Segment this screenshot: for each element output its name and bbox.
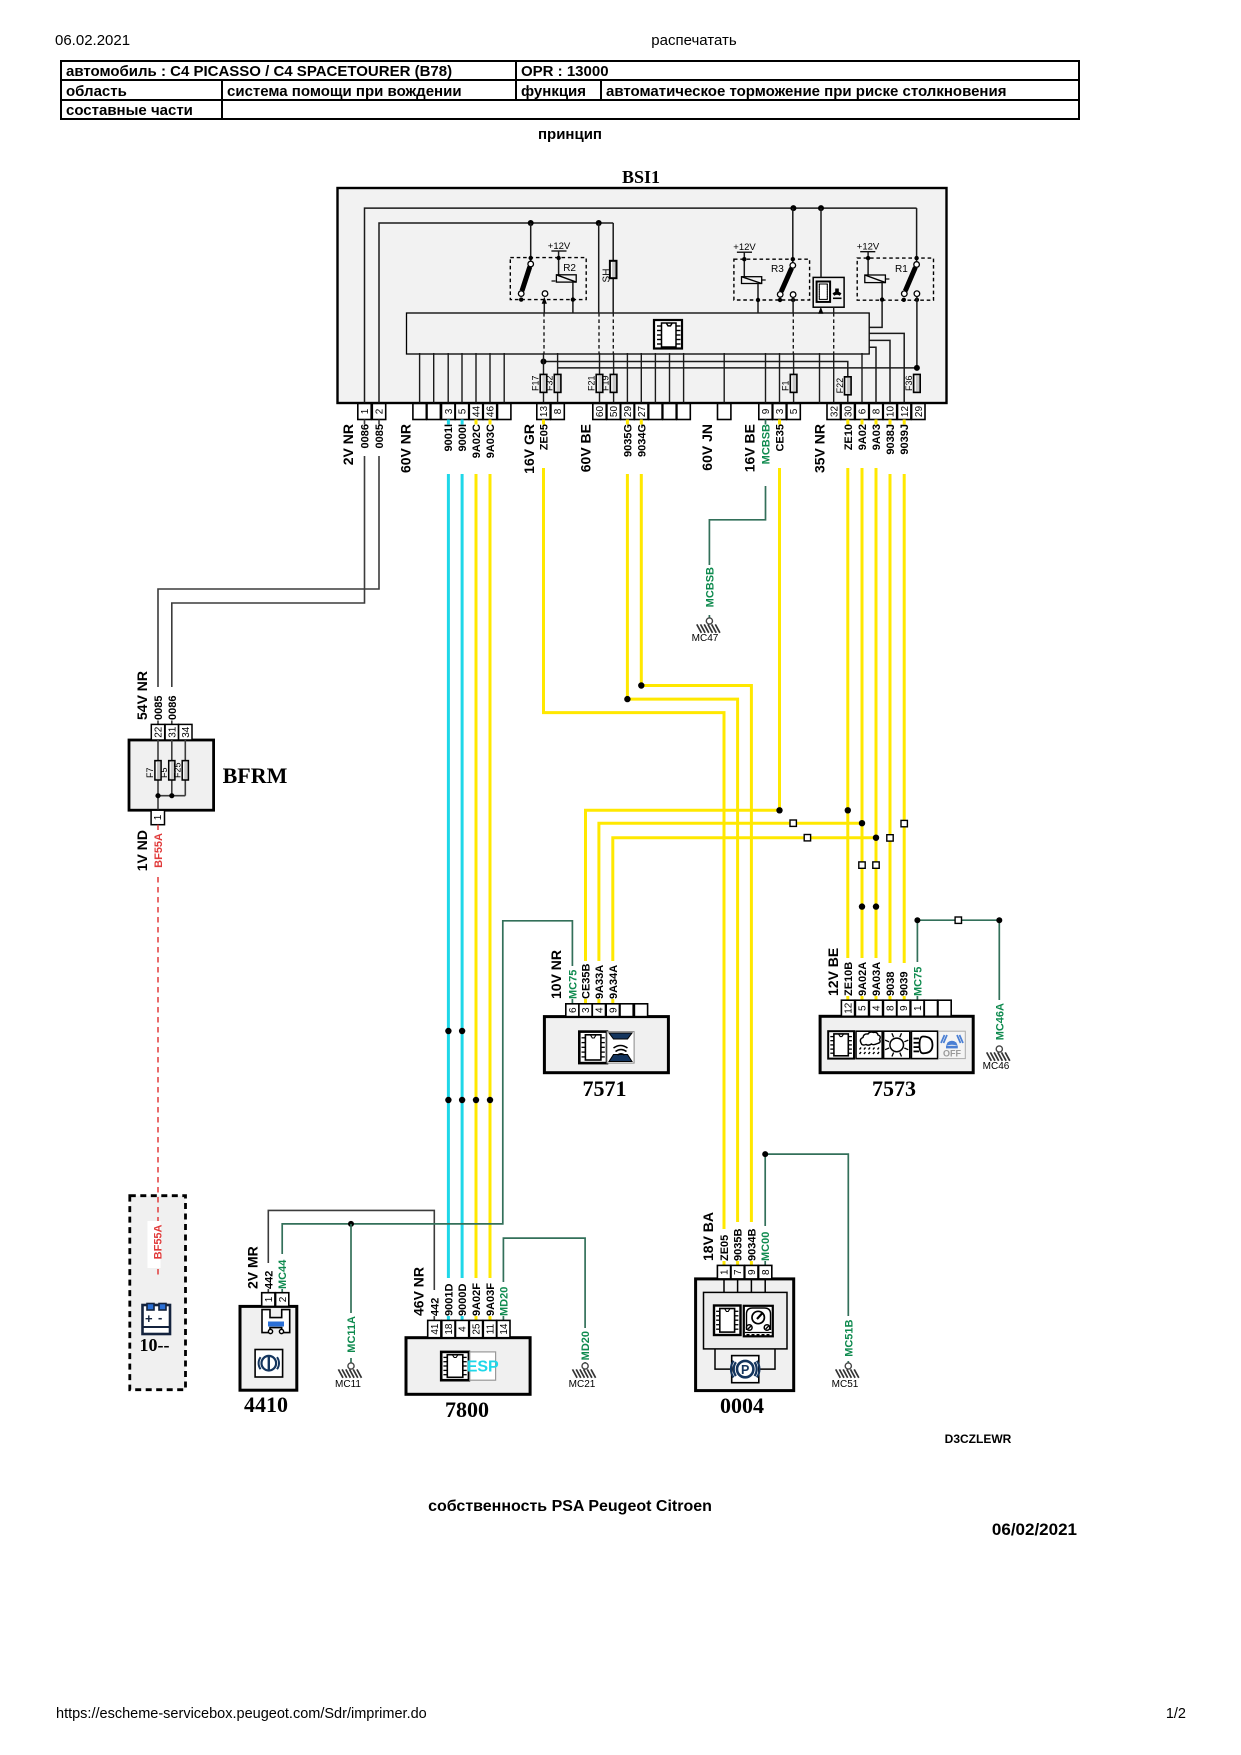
wire MC75/MC46A from 7573 pin 1 to ground MC46 (916, 996, 918, 1000)
svg-text:32: 32 (829, 406, 840, 418)
svg-text:06.02.2021: 06.02.2021 (55, 32, 130, 49)
7800 pin 41 (428, 1320, 441, 1337)
7571 pin 4 (592, 1004, 605, 1017)
0004 inner box (704, 1279, 788, 1369)
7800 ESP icon (467, 1352, 499, 1380)
module 0004 (parking brake / instrument unit) (696, 1265, 794, 1418)
svg-text:44: 44 (472, 406, 483, 418)
0004 pin 8 (759, 1265, 772, 1279)
svg-text:система помощи при вождении: система помощи при вождении (227, 83, 462, 100)
svg-text:1: 1 (264, 1296, 275, 1302)
svg-text:0085: 0085 (153, 696, 165, 720)
svg-text:F19: F19 (601, 375, 611, 391)
fuse F1 (781, 374, 797, 392)
BSI pin 27 (635, 404, 648, 420)
svg-text:8: 8 (886, 1005, 897, 1011)
7573 pin 12 (841, 1000, 854, 1016)
svg-text:составные части: составные части (66, 102, 193, 119)
svg-text:9: 9 (747, 1269, 758, 1275)
BSI pin 8 (869, 404, 882, 420)
svg-text:9A03A: 9A03A (871, 962, 883, 996)
svg-text:F17: F17 (531, 375, 541, 391)
svg-text:8: 8 (761, 1269, 772, 1275)
svg-text:P: P (741, 1363, 749, 1377)
fuse join wire inside BFRM (155, 793, 185, 810)
7571 pin 6 (566, 1004, 579, 1017)
svg-text:29: 29 (914, 406, 925, 418)
svg-text:BFRM: BFRM (223, 763, 288, 788)
BSI pin 10 (883, 404, 896, 420)
wire CE35B link to 7571 pin 3 (586, 810, 780, 961)
7800 pin 25 (469, 1320, 482, 1337)
chip module U2 with buzzer icon (813, 208, 844, 403)
7573 pin 1 (911, 1000, 924, 1016)
svg-text:автоматическое торможение при: автоматическое торможение при риске стол… (606, 83, 1006, 100)
junction dots on cyan wires (445, 1028, 493, 1103)
wire MD20 from 7800 pin 14 to ground MC21 (502, 1316, 504, 1320)
0004 pin 7 (731, 1265, 744, 1279)
svg-text:11: 11 (486, 1323, 497, 1334)
BSI pin (nc) (663, 404, 676, 420)
7573 pin (nc) (924, 1000, 937, 1016)
svg-text:9035B: 9035B (733, 1229, 745, 1261)
svg-text:9001D: 9001D (443, 1284, 455, 1316)
svg-text:12V BE: 12V BE (825, 948, 841, 996)
svg-text:MC51B: MC51B (843, 1319, 855, 1356)
relay R1 (857, 208, 934, 368)
below-bus horizontal link L2 to fuse F36 (558, 365, 920, 371)
svg-text:F25: F25 (173, 762, 183, 778)
svg-text:0004: 0004 (720, 1393, 764, 1418)
svg-text:+12V: +12V (733, 242, 756, 253)
svg-text:MC11: MC11 (335, 1379, 361, 1390)
7573 pin 9 (897, 1000, 910, 1016)
ground MC47 (706, 618, 712, 624)
svg-text:9034G: 9034G (636, 424, 648, 457)
svg-text:2V MR: 2V MR (245, 1246, 261, 1289)
fuse SH (602, 223, 617, 313)
svg-text:5: 5 (458, 408, 469, 414)
svg-text:0086: 0086 (167, 696, 179, 720)
fuse F32 (545, 374, 561, 392)
fuse F22 (835, 377, 851, 395)
svg-text:41: 41 (430, 1323, 441, 1335)
svg-text:9A33A: 9A33A (594, 965, 606, 999)
svg-text:F5: F5 (159, 767, 169, 778)
svg-text:MC46: MC46 (983, 1061, 1010, 1072)
svg-text:9: 9 (899, 1005, 910, 1011)
fuse F36 (904, 374, 920, 392)
svg-text:14: 14 (499, 1323, 510, 1335)
svg-text:MC47: MC47 (692, 633, 719, 644)
fuse F21 (587, 374, 603, 392)
7800 pin 14 (497, 1320, 510, 1337)
svg-text:3: 3 (581, 1007, 592, 1013)
wire 9039J/9039 (903, 420, 906, 425)
wire 9000I/9000D cyan (461, 420, 464, 425)
svg-text:6: 6 (568, 1007, 579, 1013)
svg-text:9A03F: 9A03F (485, 1283, 497, 1316)
svg-text:8: 8 (872, 408, 883, 414)
header table (61, 61, 1079, 119)
svg-text:35V NR: 35V NR (812, 424, 828, 473)
relay R3 (733, 208, 809, 313)
svg-text:1: 1 (360, 408, 371, 414)
svg-text:2: 2 (278, 1296, 289, 1302)
svg-text:область: область (66, 83, 127, 100)
DIAGRAM placeholder (129, 167, 1010, 1422)
svg-text:F36: F36 (904, 375, 914, 391)
BSI pin 46 (483, 404, 496, 420)
svg-text:9001I: 9001I (443, 424, 455, 452)
svg-text:31: 31 (167, 726, 178, 738)
internal bus bar of BSI1 (407, 313, 870, 354)
7800 chip icon (441, 1352, 469, 1380)
7573 chip icon (828, 1031, 854, 1058)
svg-text:MC44: MC44 (277, 1259, 289, 1289)
module 7571 (distance alert unit) (544, 1004, 668, 1101)
BSI pin (nc) (677, 404, 690, 420)
BSI pin 30 (841, 404, 854, 420)
svg-text:9035G: 9035G (622, 424, 634, 457)
svg-text:06/02/2021: 06/02/2021 (992, 1520, 1077, 1539)
BSI pin 6 (855, 404, 868, 420)
7573 pin 5 (855, 1000, 868, 1016)
svg-text:OFF: OFF (943, 1049, 961, 1059)
wire BF55A red dashed to battery (157, 825, 159, 830)
wire 9A02C/9A02F yellow (475, 420, 478, 425)
svg-text:R2: R2 (563, 263, 576, 274)
MORE placeholder (129, 420, 1010, 1423)
svg-text:F22: F22 (835, 378, 845, 394)
7573 pin (nc) (938, 1000, 951, 1016)
wire 9001I/9001D cyan (447, 420, 450, 425)
below-bus horizontal link L1 to fuse F22 (541, 359, 848, 404)
svg-text:3: 3 (444, 408, 455, 414)
BSI pin (nc) (649, 404, 662, 420)
svg-text:MC51: MC51 (832, 1379, 859, 1390)
BSI pin 8 (551, 404, 564, 420)
BSI pin (nc) (413, 404, 426, 420)
junction dots on wire B (528, 220, 602, 226)
svg-text:-: - (158, 1310, 162, 1325)
svg-text:F21: F21 (587, 375, 597, 391)
svg-text:27: 27 (637, 406, 648, 418)
svg-text:BF55A: BF55A (153, 833, 165, 868)
svg-text:9A34A: 9A34A (608, 965, 620, 999)
svg-text:MC75: MC75 (567, 970, 579, 999)
svg-text:7: 7 (733, 1269, 744, 1275)
svg-text:1: 1 (720, 1269, 731, 1275)
ground MC46 (996, 1046, 1002, 1052)
svg-text:собственность PSA Peugeot Citr: собственность PSA Peugeot Citroen (428, 1498, 712, 1515)
svg-text:18: 18 (444, 1323, 455, 1335)
step connections from bus right edge to pins 8 10 12 (869, 333, 904, 403)
svg-text:8: 8 (553, 408, 564, 414)
7573 sun sensor icon (884, 1031, 910, 1058)
BSI pin 50 (607, 404, 620, 420)
COMPONENTS placeholder (240, 948, 973, 1422)
svg-text:https://escheme-servicebox.peu: https://escheme-servicebox.peugeot.com/S… (56, 1706, 427, 1722)
svg-text:60V JN: 60V JN (699, 424, 715, 471)
svg-text:CE35: CE35 (775, 424, 787, 452)
svg-text:442: 442 (429, 1298, 441, 1316)
ground MC21 (582, 1363, 588, 1369)
svg-text:16V GR: 16V GR (521, 424, 537, 474)
svg-text:4: 4 (872, 1005, 883, 1011)
svg-text:MC75: MC75 (912, 967, 924, 996)
svg-text:60V BE: 60V BE (578, 424, 594, 472)
svg-text:9000D: 9000D (457, 1284, 469, 1316)
battery unit 10 (dashed box) (130, 1196, 186, 1390)
7573 pin 4 (869, 1000, 882, 1016)
wire MC11A drop to ground MC11 (350, 1224, 352, 1313)
7800 pin 4 (456, 1320, 469, 1337)
bus-to-pin stub wires (420, 353, 862, 404)
BSI pin 2 (372, 404, 385, 420)
wire 0086 from BSI pin 1 to BFRM pin 31 (364, 420, 366, 425)
wire 9034G/9034B to 0004 pin 9 (640, 420, 643, 425)
svg-text:18V BA: 18V BA (700, 1212, 716, 1261)
wire 9A02/9A02A (861, 420, 864, 425)
7571 chip icon (579, 1032, 607, 1064)
svg-text:0085: 0085 (374, 424, 386, 448)
fuse F25 (173, 740, 189, 796)
4410 pedal switch icon (262, 1310, 290, 1334)
svg-text:D3CZLEWR: D3CZLEWR (945, 1432, 1012, 1446)
BSI connector pin boxes (358, 404, 925, 420)
svg-text:34: 34 (181, 726, 192, 738)
svg-text:54V NR: 54V NR (134, 671, 150, 720)
0004 pin 9 (745, 1265, 758, 1279)
svg-text:9039J: 9039J (899, 424, 911, 455)
svg-text:ZE05: ZE05 (719, 1235, 731, 1261)
svg-text:1V ND: 1V ND (134, 830, 150, 871)
svg-text:принцип: принцип (538, 126, 602, 143)
svg-text:6: 6 (858, 408, 869, 414)
BSI pin 5 (787, 404, 800, 420)
wire 9035G/9035B to 0004 pin 7 (626, 420, 629, 425)
svg-text:ZE10: ZE10 (843, 424, 855, 450)
0004 parking brake icon (731, 1356, 760, 1383)
svg-text:4410: 4410 (244, 1392, 288, 1417)
svg-text:1/2: 1/2 (1166, 1706, 1186, 1722)
wire B: second feed rail from pin 2 (379, 223, 613, 404)
svg-text:9A02: 9A02 (857, 424, 869, 450)
svg-text:0086: 0086 (360, 424, 372, 448)
BSI pin 1 (358, 404, 371, 420)
BSI pin 12 (898, 404, 911, 420)
svg-text:5: 5 (858, 1005, 869, 1011)
svg-text:7571: 7571 (583, 1076, 627, 1101)
svg-text:9: 9 (761, 408, 772, 414)
7571 pin (nc) (634, 1004, 647, 1017)
wire CE35 from BSI pin 3 (778, 420, 781, 425)
dashed feed-through wires across bus bar (544, 313, 793, 354)
battery symbol (140, 1304, 171, 1356)
junction dots on 7573 feed wires (845, 807, 880, 910)
svg-text:ESP: ESP (467, 1359, 499, 1376)
svg-text:BSI1: BSI1 (622, 167, 660, 187)
wire 9A03C/9A03F yellow (489, 420, 492, 425)
svg-text:12: 12 (900, 406, 911, 418)
wire MCBSB to ground MC47 (765, 420, 767, 425)
svg-text:OPR : 13000: OPR : 13000 (521, 63, 609, 80)
wire from wire B down to bus (598, 223, 600, 313)
BSI pin (nc) (498, 404, 511, 420)
BSI pin 32 (827, 404, 840, 420)
splice squares (790, 820, 907, 868)
relay R2 (510, 223, 586, 313)
wire ZE05 to 0004 pin 1 (542, 420, 545, 425)
7800 pin 18 (442, 1320, 455, 1337)
svg-text:9038J: 9038J (885, 424, 897, 455)
svg-text:9A02F: 9A02F (471, 1283, 483, 1316)
svg-text:25: 25 (472, 1323, 483, 1335)
BSI connector labels (340, 424, 911, 474)
4410 pin 2 (276, 1293, 289, 1307)
svg-text:10V NR: 10V NR (548, 950, 564, 999)
svg-text:+12V: +12V (857, 242, 880, 253)
BSI pin (nc) (427, 404, 440, 420)
svg-text:MD20: MD20 (498, 1287, 510, 1316)
BSI pin 29 (621, 404, 634, 420)
svg-text:BF55A: BF55A (153, 1224, 165, 1259)
4410 pin 1 (262, 1293, 275, 1307)
fuse F5 (159, 740, 175, 796)
svg-text:MCBSB: MCBSB (761, 424, 773, 464)
svg-text:46V NR: 46V NR (411, 1267, 427, 1316)
svg-text:46: 46 (486, 406, 497, 418)
BSI pin 44 (469, 404, 482, 420)
svg-text:MC11A: MC11A (346, 1316, 358, 1353)
svg-text:4: 4 (458, 1326, 469, 1332)
7573 rain sensor icon (856, 1031, 882, 1058)
svg-text:CE35B: CE35B (581, 963, 593, 999)
ground MC11 (348, 1363, 354, 1369)
7800 pin 11 (483, 1320, 496, 1337)
svg-text:9A02A: 9A02A (857, 962, 869, 996)
BSI1 control unit box (338, 167, 947, 403)
svg-text:SH: SH (602, 269, 613, 283)
svg-text:1: 1 (913, 1005, 924, 1011)
svg-text:16V BE: 16V BE (742, 424, 758, 472)
svg-text:30: 30 (843, 406, 854, 418)
wire MC00/MC51B from 0004 pin 8 to ground MC51 (764, 1261, 766, 1265)
svg-text:9039: 9039 (899, 972, 911, 996)
svg-text:5: 5 (789, 408, 800, 414)
0004 gauge icon (744, 1306, 773, 1337)
wire 9A33A link from 7571 pin 4 to 9A02 (597, 999, 600, 1004)
wire A: top feed rail from pin 1 (365, 208, 917, 403)
BFRM pin 1 (151, 810, 164, 825)
wire MC44/MC75 green net 4410 pin 2 to 7571 pin 6 (281, 1289, 283, 1293)
wire ZE10/ZE10B (846, 420, 849, 425)
svg-text:29: 29 (623, 406, 634, 418)
svg-text:9A03C: 9A03C (485, 424, 497, 458)
7571 pin 9 (606, 1004, 619, 1017)
BSI pin 9 (759, 404, 772, 420)
svg-text:MC00: MC00 (760, 1232, 772, 1261)
fuse F17 (531, 374, 547, 392)
svg-text:10: 10 (886, 406, 897, 418)
BSI pin 13 (537, 404, 550, 420)
svg-text:60: 60 (595, 406, 606, 418)
BSI pin 3 (773, 404, 786, 420)
svg-text:9A03: 9A03 (871, 424, 883, 450)
footer (56, 1432, 1186, 1722)
svg-text:9034B: 9034B (746, 1229, 758, 1261)
svg-text:10--: 10-- (140, 1335, 170, 1355)
BSI pin (nc) (718, 404, 731, 420)
svg-text:7573: 7573 (872, 1076, 916, 1101)
ground MC51 (845, 1363, 851, 1369)
wire 0085 from BSI pin 2 to BFRM pin 22 (378, 420, 380, 425)
module 7800 (ESP unit) (406, 1320, 530, 1422)
7573 lane assist OFF icon (939, 1031, 966, 1058)
svg-text:F7: F7 (145, 767, 155, 778)
junction dots on wire A (790, 205, 824, 211)
BSI pin 29 (912, 404, 925, 420)
wire 9A03/9A03A (875, 420, 878, 425)
svg-text:MC46A: MC46A (994, 1003, 1006, 1040)
0004 chip icon (714, 1306, 741, 1336)
svg-text:13: 13 (539, 406, 550, 418)
svg-text:50: 50 (609, 406, 620, 418)
svg-text:7800: 7800 (445, 1397, 489, 1422)
module 7573 (light/rain switch unit) (820, 1000, 973, 1101)
svg-text:MD20: MD20 (580, 1331, 592, 1360)
svg-text:F32: F32 (545, 375, 555, 391)
svg-text:R3: R3 (771, 264, 784, 275)
svg-text:2: 2 (375, 408, 386, 414)
0004 pin 1 (717, 1265, 730, 1279)
fuse F19 (601, 374, 617, 392)
svg-text:22: 22 (154, 726, 165, 738)
svg-text:9000I: 9000I (457, 424, 469, 452)
7571 pin (nc) (620, 1004, 633, 1017)
wire 9038J/9038 (889, 420, 892, 425)
header date (55, 32, 737, 49)
7571 pin 3 (579, 1004, 592, 1017)
svg-text:автомобиль : C4 PICASSO / C4 S: автомобиль : C4 PICASSO / C4 SPACETOURER… (66, 63, 452, 80)
svg-text:MC21: MC21 (569, 1379, 596, 1390)
svg-text:1: 1 (153, 814, 164, 820)
svg-text:MCBSB: MCBSB (704, 567, 716, 607)
svg-text:ZE10B: ZE10B (843, 962, 855, 996)
4410 rotary switch icon (255, 1350, 283, 1378)
svg-text:60V NR: 60V NR (398, 424, 414, 473)
svg-text:ZE05: ZE05 (539, 424, 551, 450)
svg-text:9038: 9038 (885, 972, 897, 996)
svg-text:9: 9 (608, 1007, 619, 1013)
BSI pin 5 (455, 404, 468, 420)
svg-text:12: 12 (844, 1002, 855, 1014)
svg-text:R1: R1 (895, 264, 908, 275)
BSI pin 60 (593, 404, 606, 420)
wire 9A34A link from 7571 pin 9 to 9A03 (611, 999, 614, 1004)
module 4410 (brake pedal switch) (240, 1293, 297, 1417)
chip U1 on bus bar (654, 320, 682, 349)
svg-text:2V NR: 2V NR (340, 424, 356, 465)
7573 headlight icon (911, 1031, 937, 1058)
svg-text:4: 4 (595, 1007, 606, 1013)
svg-text:функция: функция (521, 83, 586, 100)
svg-text:+: + (145, 1311, 153, 1326)
svg-text:F1: F1 (781, 380, 791, 391)
BSI pin 3 (442, 404, 455, 420)
svg-text:9A02C: 9A02C (471, 424, 483, 458)
